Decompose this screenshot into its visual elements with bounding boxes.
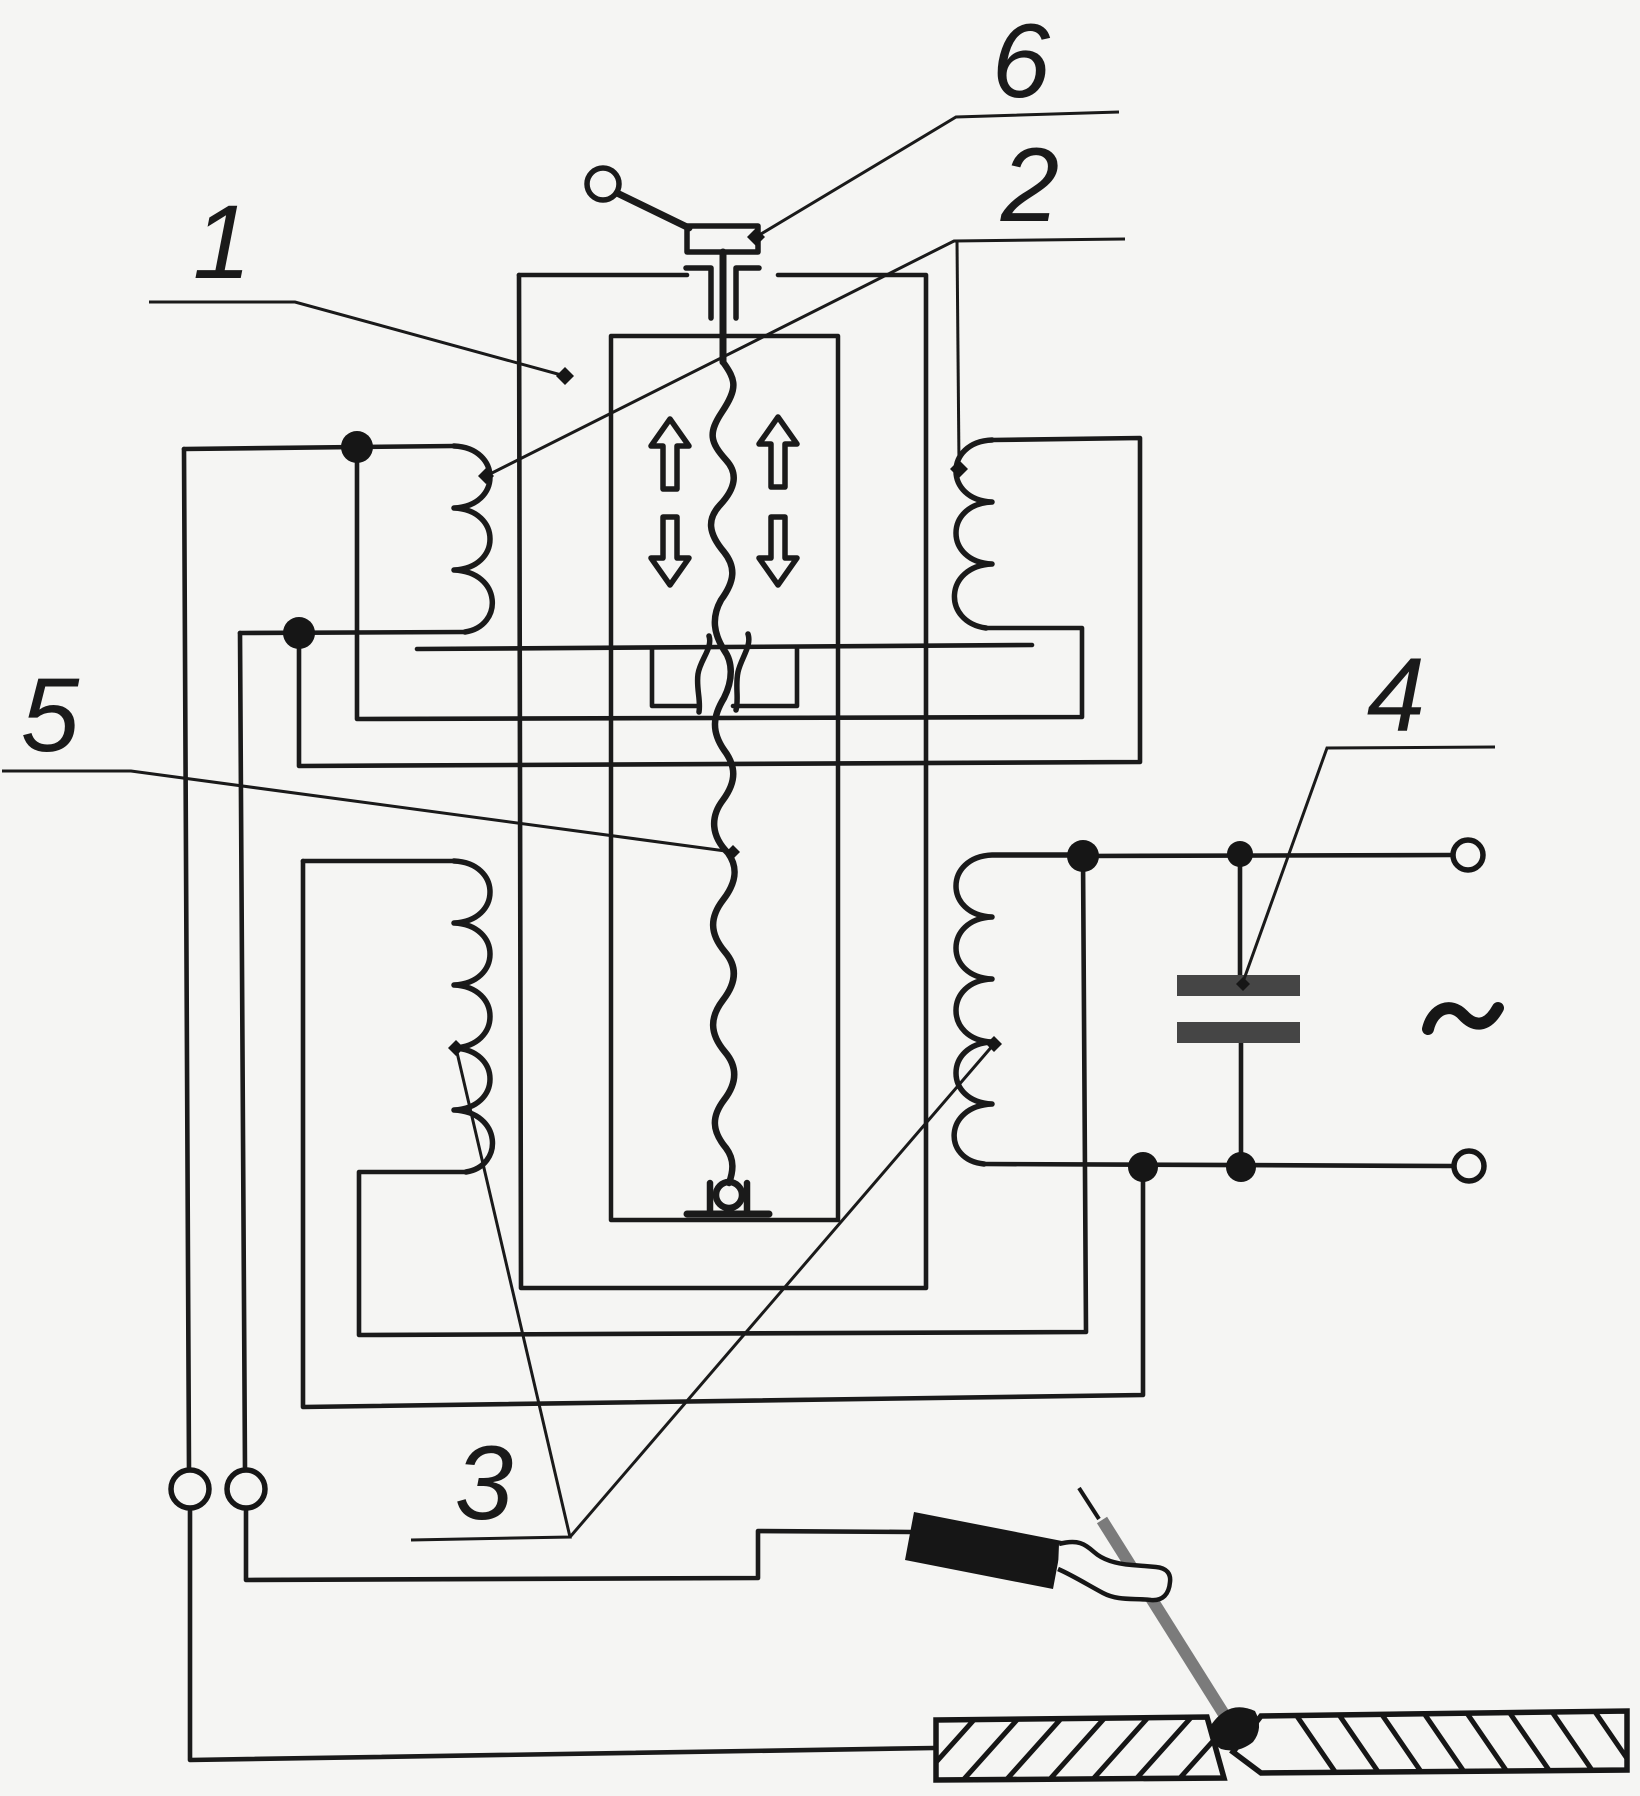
flux up arrow right	[759, 417, 797, 487]
label 6 leader	[756, 112, 1119, 237]
wire: below left terminal down to workpiece	[190, 1508, 934, 1760]
adjuster body	[687, 226, 758, 252]
label 3 leader	[411, 1048, 570, 1540]
holder cable loop	[1058, 1542, 1170, 1600]
weld pool	[1210, 1707, 1259, 1750]
wire: dot2 vertical and middle run to right side riser	[299, 438, 1140, 766]
svg-text:6: 6	[992, 3, 1051, 120]
shunt side strand right	[736, 634, 749, 710]
workpiece right plate	[1233, 1706, 1639, 1776]
wire: lower-left coil bottom lead to right riser	[359, 856, 1086, 1335]
leader arrow diamond 3 right	[986, 1036, 1002, 1052]
leader arrow diamond 2 left	[478, 468, 494, 484]
wire: left supply conductor top	[184, 447, 357, 449]
outer core frame	[519, 275, 926, 1288]
coil L4 lower-right secondary winding	[954, 855, 1083, 1164]
shunt box	[652, 648, 797, 706]
wire: below second terminal to electrode holder	[246, 1508, 911, 1580]
coil L1 upper-left winding	[454, 446, 492, 632]
label 1 leader	[149, 302, 565, 376]
coil L2 upper-right winding	[954, 440, 992, 628]
svg-text:3: 3	[455, 1425, 513, 1542]
wire: left coil bottom to dot2	[240, 632, 465, 633]
leaders and reference labels	[2, 112, 1495, 1540]
label 4 leader	[1243, 747, 1495, 982]
shunt side strand left	[698, 636, 710, 712]
wire: dot1 to left coil entry	[357, 446, 454, 447]
adjuster stem	[720, 252, 727, 362]
capacitor C 4 bottom plate	[1177, 1022, 1300, 1043]
AC source symbol	[1428, 1008, 1498, 1029]
leader arrow diamond 5	[726, 845, 740, 859]
svg-text:2: 2	[1000, 127, 1059, 244]
leader arrow diamond 2 right	[950, 460, 968, 478]
output terminal bottom	[1454, 1151, 1484, 1181]
label 2 leader right branch	[957, 241, 959, 465]
shunt roller support	[716, 1182, 742, 1208]
electrode holder	[905, 1512, 1062, 1589]
wire: left supply vertical drop to terminal	[184, 449, 189, 1470]
input terminal left	[171, 1470, 209, 1508]
junction dot secondary top	[1067, 840, 1099, 872]
flux up arrow left	[651, 419, 689, 489]
leader arrow diamond 4	[1236, 977, 1250, 991]
flux down arrow left	[651, 517, 689, 585]
junction dot at left coil bottom	[283, 617, 315, 649]
leader arrow diamond 6	[747, 228, 765, 246]
movable shunt wavy rod 5	[711, 362, 735, 1183]
svg-text:5: 5	[21, 657, 80, 774]
wire: lower-left coil top lead	[303, 859, 454, 864]
electrode tip wire	[1079, 1488, 1099, 1519]
coil L3 lower-left winding	[454, 861, 492, 1172]
svg-text:4: 4	[1367, 637, 1425, 754]
input terminal right	[227, 1470, 265, 1508]
wire: lower-left loop outline	[303, 861, 1143, 1407]
capacitor C 4 top plate	[1177, 975, 1300, 996]
label 3 leader right branch	[570, 1044, 994, 1537]
svg-text:1: 1	[193, 184, 251, 301]
junction dot capacitor top	[1227, 841, 1253, 867]
label 2 leader	[486, 239, 1125, 476]
adjusting knob 6 handle	[587, 168, 619, 200]
adjuster guide brackets	[686, 268, 711, 318]
inner core window frame	[611, 336, 838, 1220]
leader arrow diamond 1	[556, 367, 574, 385]
junction dot at left coil top	[341, 431, 373, 463]
yoke bar line	[417, 645, 1032, 649]
output terminal top	[1453, 840, 1483, 870]
wire: secondary bottom output run	[984, 1164, 1452, 1166]
flux down arrow right	[759, 517, 797, 585]
workpiece left plate	[913, 1712, 1282, 1788]
electrode rod	[1102, 1520, 1232, 1727]
junction dot capacitor bottom	[1226, 1152, 1256, 1182]
leader arrow diamond 3 left	[448, 1040, 464, 1056]
wire: second supply vertical drop	[240, 633, 245, 1470]
wire: capacitor top lead	[1238, 855, 1243, 975]
wire: capacitor bottom lead	[1239, 1043, 1244, 1167]
wire: secondary top output run	[1083, 855, 1452, 856]
junction dot secondary bottom left	[1128, 1152, 1158, 1182]
label 5 leader	[2, 771, 733, 852]
wire: dot1 vertical and lower yoke run	[357, 447, 1082, 719]
